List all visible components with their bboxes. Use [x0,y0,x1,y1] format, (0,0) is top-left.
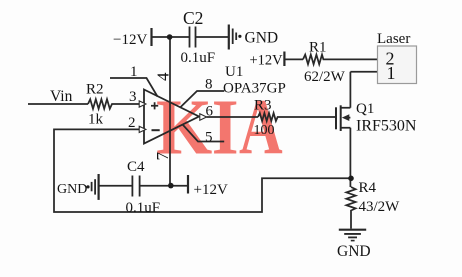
svg-text:OPA37GP: OPA37GP [223,81,286,97]
svg-text:R4: R4 [359,180,377,196]
svg-text:+12V: +12V [194,182,228,198]
svg-text:43/2W: 43/2W [359,199,401,215]
svg-text:C2: C2 [183,8,203,28]
svg-text:IRF530N: IRF530N [356,118,417,135]
svg-text:8: 8 [205,77,213,93]
svg-text:100: 100 [254,123,275,138]
svg-text:GND: GND [57,182,87,197]
svg-text:Vin: Vin [50,88,73,105]
svg-text:3: 3 [129,89,137,105]
svg-text:Q1: Q1 [356,101,374,117]
svg-text:−12V: −12V [113,32,147,48]
svg-text:4: 4 [154,72,173,81]
svg-text:C4: C4 [127,159,145,175]
svg-text:GND: GND [337,243,371,260]
svg-text:R3: R3 [254,98,272,114]
svg-text:+12V: +12V [250,53,284,69]
svg-text:GND: GND [245,30,279,47]
svg-text:5: 5 [205,130,213,146]
svg-text:62/2W: 62/2W [304,69,346,85]
svg-text:1: 1 [130,64,138,80]
svg-text:1: 1 [387,63,396,83]
svg-text:Laser: Laser [377,31,410,47]
svg-text:1k: 1k [88,112,104,128]
svg-text:I: I [212,84,239,172]
svg-text:7: 7 [153,152,172,161]
svg-text:2: 2 [128,115,136,131]
svg-text:0.1uF: 0.1uF [181,50,216,66]
svg-text:R2: R2 [86,82,104,98]
svg-text:R1: R1 [309,40,327,56]
svg-text:0.1uF: 0.1uF [126,200,161,216]
svg-text:U1: U1 [225,64,243,80]
svg-text:6: 6 [206,104,214,120]
